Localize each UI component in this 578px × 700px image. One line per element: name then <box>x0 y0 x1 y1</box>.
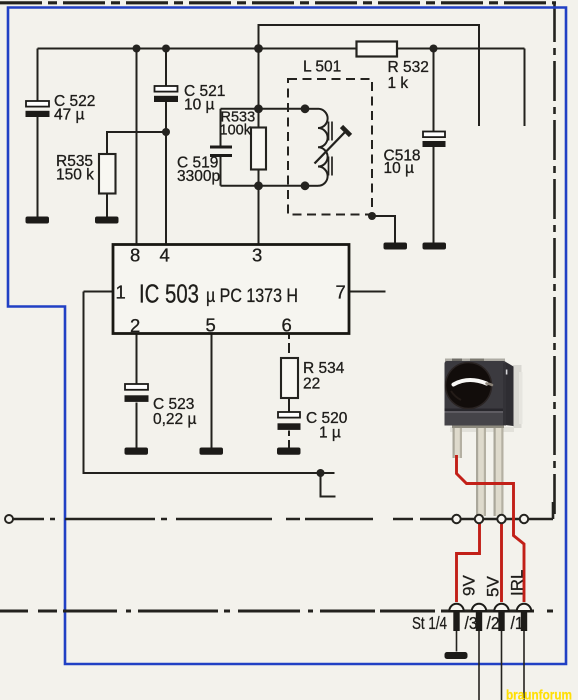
svg-text:1: 1 <box>116 282 126 303</box>
svg-text:5V: 5V <box>484 576 503 597</box>
svg-text:10 µ: 10 µ <box>184 97 215 114</box>
red wire IRL (left leg to pin /1) <box>457 455 525 602</box>
terminal circles on bus <box>452 515 528 523</box>
wire: tank top link <box>221 108 306 110</box>
svg-text:8: 8 <box>130 245 140 266</box>
terminal circle left edge <box>5 515 13 523</box>
svg-text:6: 6 <box>282 315 292 336</box>
red wire 9V (terminal 2 to pin St 1/4) <box>457 524 480 603</box>
capacitor C522 <box>26 93 96 124</box>
resistor R535 <box>56 153 116 194</box>
svg-text:9V: 9V <box>460 575 479 596</box>
wire: pin1 to left <box>84 291 114 293</box>
top border dash-dot line <box>0 1 556 4</box>
svg-text:/3: /3 <box>465 613 478 633</box>
inductor core lines <box>329 122 333 176</box>
op IC 503 box <box>113 245 349 337</box>
wire: pin6 dashed lead <box>288 334 290 359</box>
svg-text:µ PC 1373 H: µ PC 1373 H <box>206 286 298 307</box>
svg-text:1 µ: 1 µ <box>319 425 341 442</box>
wire: C518 column <box>433 49 435 244</box>
ground (C518) <box>423 243 447 250</box>
svg-text:R 534: R 534 <box>303 360 345 377</box>
capacitor C519 <box>177 147 232 185</box>
svg-text:3: 3 <box>252 245 262 266</box>
svg-text:2: 2 <box>130 315 140 336</box>
svg-text:4: 4 <box>160 245 170 266</box>
svg-text:IRL: IRL <box>508 570 527 596</box>
wire: shield ground branch <box>372 216 395 243</box>
svg-text:10 µ: 10 µ <box>384 160 415 177</box>
svg-text:47 µ: 47 µ <box>54 107 85 124</box>
IR receiver module photo: shadow <box>450 365 523 432</box>
bus line with terminals <box>14 502 554 519</box>
wire: C520 dashed lead to ground <box>288 431 290 449</box>
ground (pin St 1/4) <box>445 652 468 659</box>
svg-text:5: 5 <box>206 315 216 336</box>
IR receiver module photo: legs <box>452 424 504 516</box>
wire: pin1 down rail <box>84 292 335 474</box>
wire: R534 to C520 <box>288 398 290 412</box>
resistor R533 <box>220 110 267 170</box>
wire: pin3 link over top to right drop (clipped) <box>259 25 480 126</box>
svg-text:7: 7 <box>336 282 346 303</box>
wire: C522 column <box>37 49 39 218</box>
svg-text:150 k: 150 k <box>56 167 94 184</box>
svg-text:braunforum: braunforum <box>506 687 572 700</box>
IR receiver module photo: body <box>445 359 514 427</box>
wire: pin2 column <box>136 334 138 449</box>
connector pin /1 <box>517 604 531 700</box>
resistor R534 <box>281 358 345 398</box>
lens <box>445 362 493 410</box>
svg-text:L 501: L 501 <box>303 59 341 76</box>
svg-text:/2: /2 <box>487 613 500 633</box>
connector pin St 1/4 <box>449 604 463 652</box>
connector pin /3 <box>472 604 486 700</box>
wire: tank bottom link <box>221 185 306 187</box>
wire: C521 / pin4 column <box>165 49 167 246</box>
L501 shield dashed box <box>288 59 372 215</box>
inductor L501 coil <box>318 109 328 186</box>
svg-text:3300p: 3300p <box>177 168 220 185</box>
right border dash-dot line <box>553 2 556 519</box>
ground (R535) <box>95 217 119 224</box>
wire: C519 branch <box>220 109 222 186</box>
svg-text:1 k: 1 k <box>388 75 409 92</box>
svg-text:/1: /1 <box>511 613 524 633</box>
wire: coil top stub <box>305 108 318 110</box>
svg-text:R 532: R 532 <box>388 59 429 76</box>
wire: top rail right drop (clipped) <box>524 49 526 127</box>
connector pin /2 <box>494 604 508 700</box>
red wire 5V (terminal 3 to pin /2) <box>500 524 503 603</box>
wire: pin5 column <box>211 334 213 449</box>
wire: pin7 stub (clipped) <box>349 291 386 293</box>
connector baseline dashed <box>0 610 553 613</box>
capacitor C521 <box>154 83 225 114</box>
svg-text:22: 22 <box>303 376 320 393</box>
svg-text:St 1/4: St 1/4 <box>412 613 447 633</box>
ground (shield) <box>384 243 408 250</box>
wire: coil bottom stub <box>305 185 318 187</box>
ground (pin5) <box>200 448 224 455</box>
svg-text:0,22 µ: 0,22 µ <box>153 411 196 428</box>
wire: pin8 column <box>136 49 138 246</box>
capacitor C520 <box>278 410 348 442</box>
resistor R532 <box>357 42 429 93</box>
inductor adjustment arrow <box>315 131 347 164</box>
svg-text:IC 503: IC 503 <box>139 279 199 309</box>
wire: rail end hook <box>321 473 336 497</box>
ground (pin6) <box>277 448 301 455</box>
wire: pin3 column <box>258 49 260 246</box>
wire: R535 branch <box>107 132 166 217</box>
ground (C522) <box>26 217 50 224</box>
wire: main top supply rail <box>38 48 525 50</box>
ground (pin2) <box>125 448 149 455</box>
svg-text:100k: 100k <box>220 123 252 139</box>
capacitor C518 <box>384 132 446 178</box>
capacitor C523 <box>125 384 197 428</box>
